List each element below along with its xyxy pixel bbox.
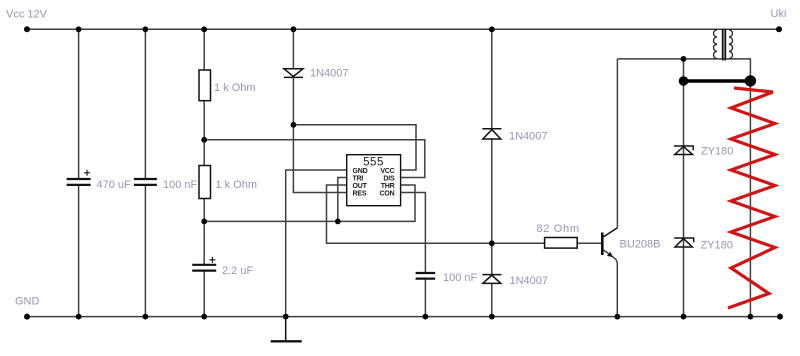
junction top 470uF — [76, 26, 82, 32]
svg-text:Uki: Uki — [771, 8, 787, 20]
junction TRI/THR — [335, 219, 341, 225]
wire 470uF column lower — [78, 185, 80, 317]
wire node D to R3 — [492, 242, 545, 244]
capacitor C3 plus sign — [209, 257, 215, 263]
wire node C to VCC pin — [293, 125, 416, 170]
node GND terminal — [24, 314, 30, 320]
wire GND pin to rail — [286, 170, 347, 317]
svg-text:100 nF: 100 nF — [163, 179, 198, 191]
wire secondary column — [749, 84, 751, 317]
svg-text:1N4007: 1N4007 — [510, 275, 549, 287]
node Vcc terminal — [24, 26, 30, 32]
junction rail 470uF — [76, 314, 82, 320]
node A junction — [201, 137, 207, 143]
diode D1 1N4007 — [284, 69, 303, 78]
HV secondary winding red zigzag — [728, 88, 775, 308]
ferrite bar left terminal — [679, 76, 689, 86]
wire R3 to base — [577, 242, 601, 244]
node Uki terminal — [776, 26, 782, 32]
wire zener column — [683, 59, 685, 317]
wire resistor chain top — [203, 29, 205, 70]
node B junction — [201, 219, 207, 225]
svg-text:ZY180: ZY180 — [701, 240, 733, 252]
ground symbol — [271, 317, 302, 342]
junction rail 100nF2 — [423, 314, 429, 320]
node C junction — [291, 122, 297, 128]
wire emitter column — [604, 250, 618, 317]
svg-text:82 Ohm: 82 Ohm — [537, 223, 580, 235]
transformer T1 secondary winding — [729, 30, 733, 59]
capacitor C1 470uF plates — [67, 179, 91, 185]
wire between R1 and R2 — [203, 101, 205, 166]
junction rail secondary — [748, 314, 754, 320]
node D junction — [489, 240, 495, 246]
svg-text:555: 555 — [363, 157, 384, 169]
svg-text:1N4007: 1N4007 — [310, 68, 349, 80]
junction rail 100nF — [143, 314, 149, 320]
wire collector net to transformer — [617, 59, 750, 77]
ferrite core bar — [684, 79, 751, 83]
transistor Q1 BU208B base bar — [601, 233, 604, 256]
zener ZD2 ZY180 — [674, 238, 694, 247]
junction rail D3 — [489, 314, 495, 320]
wire node D to D3 — [491, 243, 493, 274]
svg-text:GND: GND — [353, 168, 368, 175]
svg-text:GND: GND — [15, 296, 40, 308]
svg-text:TRI: TRI — [353, 175, 364, 182]
resistor R3 82 Ohm — [545, 238, 578, 249]
diode D3 1N4007 — [482, 275, 501, 284]
junction rail zener — [681, 314, 687, 320]
transformer T1 core — [723, 29, 726, 61]
svg-text:1N4007: 1N4007 — [509, 131, 548, 143]
wire 100nF column lower — [144, 185, 146, 317]
junction top D2 — [489, 26, 495, 32]
svg-text:RES: RES — [353, 190, 367, 197]
wire collector column — [616, 59, 618, 228]
wire node A to DIS — [204, 140, 425, 178]
wire D1 cathode to RES — [293, 77, 346, 192]
junction top R1 — [201, 26, 207, 32]
svg-text:1 k Ohm: 1 k Ohm — [214, 82, 256, 94]
svg-text:OUT: OUT — [353, 183, 368, 190]
resistor R2 1k — [199, 166, 211, 199]
capacitor C4 100nF plates — [416, 273, 436, 279]
transistor Q1 emitter arrow — [607, 252, 613, 257]
svg-text:THR: THR — [381, 183, 395, 190]
op-amp/IC U1 555 box — [347, 155, 401, 206]
junction rail 2.2uF — [201, 314, 207, 320]
svg-text:1 k Ohm: 1 k Ohm — [216, 179, 258, 191]
junction top 100nF — [143, 26, 149, 32]
resistor R1 1k — [199, 70, 211, 101]
transistor Q1 collector diagonal — [604, 228, 618, 237]
diode D2 1N4007 — [482, 129, 501, 139]
wire bottom GND rail — [27, 316, 780, 318]
wire D3 to rail — [491, 284, 493, 317]
wire 470uF column upper — [78, 29, 80, 179]
wire OUT pin to node D — [327, 185, 492, 243]
junction top D1 — [291, 26, 297, 32]
wire TRI to node B — [338, 178, 347, 222]
wire between R2 and 2.2uF — [203, 199, 205, 265]
wire 100nF2 to rail — [424, 279, 426, 317]
ferrite bar right terminal — [745, 75, 756, 86]
svg-text:2.2 uF: 2.2 uF — [222, 265, 253, 277]
wire CON pin to 100nF2 — [401, 193, 426, 273]
wire D1 column upper — [292, 29, 294, 68]
junction rail emitter — [614, 314, 620, 320]
capacitor C2 100nF plates — [134, 179, 157, 185]
svg-text:ZY180: ZY180 — [701, 146, 733, 158]
wire node B to THR — [204, 185, 415, 221]
svg-text:100 nF: 100 nF — [443, 272, 478, 284]
transformer T1 primary winding — [714, 30, 718, 59]
svg-text:DIS: DIS — [383, 175, 395, 182]
node output terminal — [777, 314, 783, 320]
svg-text:VCC: VCC — [380, 168, 394, 175]
svg-text:CON: CON — [380, 190, 395, 197]
wire D2 column upper — [491, 29, 493, 128]
junction rail ground — [283, 314, 289, 320]
svg-text:Vcc 12V: Vcc 12V — [6, 9, 48, 21]
junction collector net — [681, 56, 687, 62]
wire D2 to node D — [491, 139, 493, 243]
capacitor C1 plus sign — [84, 170, 90, 176]
svg-text:BU208B: BU208B — [620, 239, 661, 251]
capacitor C3 2.2uF plates — [192, 265, 216, 271]
zener ZD1 ZY180 — [674, 146, 693, 155]
wire top Vcc rail — [27, 28, 779, 30]
wire below 2.2uF — [203, 271, 205, 317]
svg-text:470 uF: 470 uF — [97, 179, 132, 191]
wire 100nF column upper — [144, 29, 146, 179]
